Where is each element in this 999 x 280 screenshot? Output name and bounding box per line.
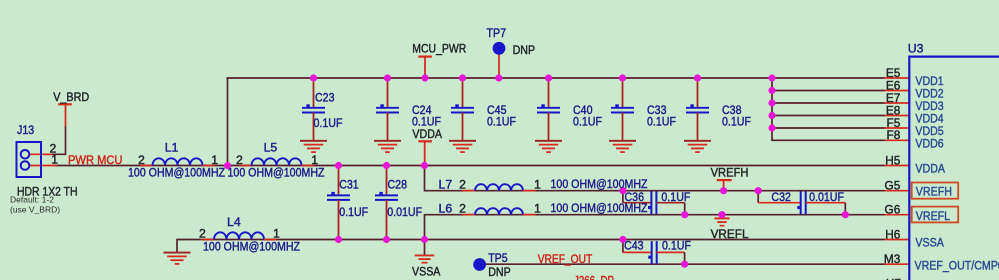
svg-text:VREF_OUT/CMP0: VREF_OUT/CMP0	[915, 258, 999, 272]
inductor L4	[202, 232, 277, 239]
svg-text:VDDA: VDDA	[915, 162, 945, 176]
junction G6 row x=684.7	[681, 211, 688, 218]
ground VREFL	[714, 218, 729, 225]
junction VSSA row x=622.9	[619, 236, 626, 243]
pin stub G5 of U3	[885, 190, 910, 192]
svg-text:2: 2	[459, 202, 466, 216]
wire G5 row	[425, 190, 885, 192]
svg-text:Default: 1-2: Default: 1-2	[10, 195, 54, 205]
capacitor C43	[623, 240, 685, 265]
inductor L7	[463, 184, 536, 190]
junction G6 row x=722	[718, 211, 725, 218]
svg-text:0.1UF: 0.1UF	[661, 190, 690, 204]
pin stub E5 of U3	[885, 77, 910, 79]
wire F8 row	[771, 139, 884, 141]
capacitor C32	[758, 191, 845, 215]
ground under C24	[374, 141, 401, 152]
wire V_BRD vertical + corner to J13 pin2	[44, 126, 66, 154]
box around VREFL	[912, 207, 959, 223]
pin stub M3 of U3	[885, 263, 910, 265]
svg-text:1: 1	[51, 153, 58, 167]
inductor L1	[140, 158, 215, 165]
pin stub J13 pin2	[29, 153, 52, 155]
svg-text:TP7: TP7	[487, 26, 507, 40]
wire top power rail	[227, 77, 772, 79]
op-amp U3 body outline	[909, 57, 999, 280]
capacitor C38	[686, 79, 709, 141]
junction VDDA row x=338.5	[335, 162, 342, 169]
svg-text:DNP: DNP	[488, 265, 511, 279]
wire M3 row	[486, 263, 885, 265]
junction on rail x=697.5	[694, 74, 701, 81]
svg-text:0.1UF: 0.1UF	[573, 115, 602, 129]
svg-text:1: 1	[534, 178, 541, 192]
svg-text:G5: G5	[885, 179, 901, 193]
wire PWR_MCU / VDDA row	[55, 165, 885, 167]
wire fanout vertical	[771, 78, 773, 140]
junction on rail x=498.8	[495, 74, 502, 81]
capacitor C23	[302, 79, 325, 141]
ground under C38	[684, 141, 711, 152]
svg-text:V_BRD: V_BRD	[53, 90, 89, 104]
svg-text:L6: L6	[439, 202, 453, 216]
svg-text:DNP: DNP	[513, 43, 536, 57]
capacitor C40	[537, 79, 560, 141]
ground VSSA	[415, 255, 435, 262]
junction fanout y=90.5	[768, 87, 775, 94]
junction VSSA row x=338.5	[335, 236, 342, 243]
junction VDDA row x=424.5	[421, 162, 428, 169]
svg-text:C32: C32	[771, 190, 791, 204]
svg-text:VREFH: VREFH	[711, 166, 749, 180]
junction G5 row x=758.2	[755, 187, 762, 194]
svg-text:(use V_BRD): (use V_BRD)	[10, 205, 60, 215]
junction VDDA row x=386.5	[383, 162, 390, 169]
junction VSSA row x=424.5	[421, 236, 428, 243]
svg-text:VDD6: VDD6	[915, 136, 943, 150]
svg-text:VSSA: VSSA	[412, 264, 441, 278]
wire VSSA ground stub	[424, 240, 426, 256]
junction G6 row x=845.3	[842, 211, 849, 218]
pin stub E7 of U3	[885, 102, 910, 104]
svg-text:0.1UF: 0.1UF	[647, 115, 676, 129]
capacitor C31	[327, 166, 350, 239]
svg-text:C31: C31	[339, 178, 359, 192]
wire E7 row	[772, 102, 885, 104]
svg-text:0.1UF: 0.1UF	[722, 115, 751, 129]
connector J13 body	[17, 142, 42, 177]
junction M3 row x=684.6	[681, 261, 688, 268]
ground at L4 left	[164, 253, 191, 264]
pin stub E8 of U3	[885, 115, 910, 117]
svg-text:100 OHM@100MHZ: 100 OHM@100MHZ	[228, 165, 325, 179]
svg-text:0.1UF: 0.1UF	[339, 205, 368, 219]
svg-text:1: 1	[273, 227, 280, 241]
box around VREFH	[912, 183, 959, 199]
wire E5 row	[772, 77, 885, 79]
svg-text:2: 2	[199, 227, 206, 241]
junction on rail x=548.5	[545, 74, 552, 81]
svg-text:G6: G6	[885, 203, 901, 217]
wire E6 row	[772, 90, 885, 92]
svg-text:C28: C28	[388, 178, 408, 192]
svg-text:VREF_OUT: VREF_OUT	[538, 252, 593, 266]
svg-text:VSSA: VSSA	[915, 236, 944, 250]
power symbol VDDA tap	[418, 141, 432, 165]
power symbol MCU_PWR tap	[418, 57, 432, 78]
svg-text:100 OHM@100MHZ: 100 OHM@100MHZ	[551, 177, 648, 191]
svg-text:0.1UF: 0.1UF	[314, 116, 343, 130]
wire G6 row	[425, 214, 885, 216]
wire F5 row	[772, 127, 885, 129]
junction on rail x=622.5	[619, 74, 626, 81]
svg-text:TP5: TP5	[488, 251, 508, 265]
svg-text:L5: L5	[264, 141, 278, 155]
wire G6 corner down to VSSA row	[424, 214, 426, 240]
junction fanout y=128	[768, 124, 775, 131]
svg-text:C43: C43	[624, 238, 644, 252]
capacitor C45	[451, 79, 474, 141]
pin stub H5 of U3	[885, 165, 910, 167]
svg-text:0.01UF: 0.01UF	[387, 205, 422, 219]
junction fanout y=115.5	[768, 112, 775, 119]
junction VDDA row x=227.5	[224, 162, 231, 169]
capacitor C24	[376, 79, 399, 141]
junction on rail x=313.5	[310, 74, 317, 81]
ground under C45	[449, 141, 476, 152]
junction on rail x=462.5	[459, 74, 466, 81]
capacitor C36	[623, 191, 685, 215]
svg-text:VREFH: VREFH	[916, 185, 952, 199]
svg-text:1: 1	[534, 202, 541, 216]
pin stub E6 of U3	[885, 90, 910, 92]
pin stub H6 of U3	[885, 239, 910, 241]
svg-text:100 OHM@100MHZ: 100 OHM@100MHZ	[203, 240, 300, 254]
power symbol VREFH tap	[717, 180, 732, 191]
svg-text:J13: J13	[17, 123, 34, 137]
connector J13 pin 1 circle	[21, 161, 30, 170]
inductor L6	[463, 208, 536, 215]
svg-text:M3: M3	[884, 252, 901, 266]
svg-text:C23: C23	[315, 90, 335, 104]
svg-text:U3: U3	[908, 42, 924, 56]
wire L4 left corner to ground	[176, 239, 178, 253]
svg-text:MCU_PWR: MCU_PWR	[412, 42, 466, 56]
capacitor C33	[611, 79, 634, 141]
junction on rail x=425	[421, 74, 428, 81]
wire rail left vertical	[227, 77, 229, 165]
svg-text:2: 2	[459, 178, 466, 192]
svg-text:0.1UF: 0.1UF	[487, 115, 516, 129]
junction on rail x=387.5	[384, 74, 391, 81]
svg-text:0.1UF: 0.1UF	[662, 238, 691, 252]
svg-text:L1: L1	[165, 141, 179, 155]
svg-text:L4: L4	[227, 215, 241, 229]
svg-text:PWR MCU: PWR MCU	[68, 153, 123, 167]
wire VDDA feed down to G5 row	[424, 166, 426, 192]
test point TP7	[493, 42, 506, 55]
pin stub J13 pin1	[29, 165, 57, 167]
svg-text:J266_DP: J266_DP	[574, 274, 614, 280]
svg-text:0.01UF: 0.01UF	[809, 190, 844, 204]
svg-text:VREFL: VREFL	[916, 209, 950, 223]
svg-text:100 OHM@100MHZ: 100 OHM@100MHZ	[551, 201, 648, 215]
junction fanout y=103	[768, 99, 775, 106]
junction G5 row x=723.6	[720, 187, 727, 194]
svg-text:F8: F8	[887, 128, 901, 142]
junction on rail x=772	[768, 74, 775, 81]
capacitor C28	[375, 166, 398, 239]
pin stub F8 of U3	[885, 139, 910, 141]
wire E8 row	[772, 115, 885, 117]
connector J13 pin 2 circle	[21, 150, 30, 159]
ground under C40	[535, 141, 562, 152]
svg-text:VDDA: VDDA	[412, 127, 442, 141]
svg-text:H6: H6	[885, 227, 901, 241]
svg-text:VREFL: VREFL	[711, 227, 749, 241]
inductor L5	[239, 158, 314, 165]
svg-text:0.1UF: 0.1UF	[412, 115, 441, 129]
svg-text:H5: H5	[885, 153, 901, 167]
ground under C23	[300, 141, 327, 152]
svg-text:H7: H7	[886, 277, 901, 280]
test point TP7 stem	[498, 54, 500, 78]
junction VSSA row x=386.5	[383, 236, 390, 243]
ground under C33	[609, 141, 636, 152]
power symbol V_BRD	[58, 104, 72, 126]
wire VSSA row	[177, 239, 885, 241]
pin stub G6 of U3	[885, 214, 910, 216]
junction G5 row x=622.9	[619, 187, 626, 194]
test point TP5	[473, 258, 486, 271]
svg-text:100 OHM@100MHZ: 100 OHM@100MHZ	[128, 165, 225, 179]
pin stub F5 of U3	[885, 127, 910, 129]
svg-text:L7: L7	[439, 178, 453, 192]
